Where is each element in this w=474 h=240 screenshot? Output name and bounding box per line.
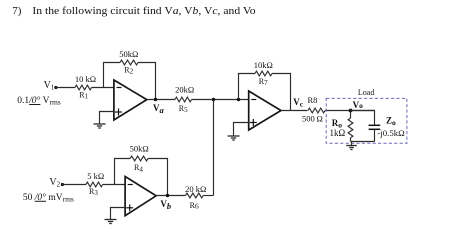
wire U3 output [281, 110, 308, 112]
svg-text:R8: R8 [308, 95, 318, 105]
op-amp U3 [249, 91, 281, 130]
svg-text:R2: R2 [124, 65, 133, 75]
wire R4 left vertical [115, 159, 131, 185]
resistor R2 [120, 60, 138, 65]
wire R3 to U2 inverting input [103, 184, 126, 186]
svg-text:R3: R3 [89, 187, 98, 197]
ground U1 [94, 124, 106, 128]
resistor R5 [175, 97, 192, 102]
svg-text:7): 7) [12, 5, 21, 17]
svg-text:50kΩ: 50kΩ [130, 143, 149, 153]
source V1 terminal dot [54, 86, 57, 89]
wire R2 right vertical to output [138, 63, 156, 100]
wire R4 right vertical to output [148, 159, 168, 196]
svg-text:Zo: Zo [386, 116, 396, 127]
ground U3 [228, 136, 240, 140]
svg-text:50kΩ: 50kΩ [119, 49, 138, 59]
load dashed box [326, 98, 407, 143]
svg-text:Vc: Vc [293, 97, 304, 109]
wire U3 noninverting to ground [234, 123, 249, 137]
wire U2 noninverting to ground [111, 208, 126, 220]
wire U1 output [147, 99, 175, 101]
wire V1 to R1 [56, 87, 75, 89]
resistor R1 [75, 85, 92, 90]
svg-text:V1: V1 [44, 80, 55, 91]
resistor R6 [186, 193, 204, 198]
svg-text:In the following circuit find: In the following circuit find Va, Vb, Vc… [32, 5, 256, 17]
svg-text:10kΩ: 10kΩ [254, 60, 273, 70]
wire R2 left vertical [104, 63, 121, 88]
node Vb dot [166, 194, 169, 197]
wire riser from R6 [213, 100, 215, 196]
svg-text:20kΩ: 20kΩ [175, 84, 194, 94]
svg-text:-j0.5kΩ: -j0.5kΩ [377, 128, 405, 138]
op-amp U1 [114, 80, 147, 120]
wire stub to load ground [351, 142, 353, 146]
wire R1 to U1 inverting input [92, 87, 114, 89]
op-amp U1 plus sign [115, 111, 122, 113]
op-amp U1 minus sign [117, 87, 122, 89]
wire load bottom [351, 141, 375, 143]
node summing junction [212, 98, 215, 101]
op-amp U2 minus sign [128, 184, 133, 186]
wire Vo to Zo top plate [351, 111, 375, 125]
resistor R4 [130, 156, 148, 161]
wire Zo bottom lead [374, 130, 376, 142]
svg-text:20 kΩ: 20 kΩ [185, 184, 206, 194]
wire U1 noninverting to ground [100, 112, 114, 124]
wire Vo to Ro [350, 111, 352, 119]
svg-text:R5: R5 [179, 104, 188, 114]
ground U2 [105, 220, 117, 224]
svg-text:R6: R6 [190, 201, 199, 211]
wire U2 output [156, 195, 185, 197]
resistor Ro vertical [348, 118, 353, 138]
svg-text:Load: Load [358, 88, 374, 97]
op-amp U2 [125, 177, 156, 216]
node R7 tap [237, 98, 240, 101]
resistor R7 [255, 71, 272, 76]
svg-text:Va: Va [153, 103, 165, 115]
svg-text:0.1/0° Vrms: 0.1/0° Vrms [17, 95, 60, 107]
source V2 terminal dot [61, 183, 64, 186]
svg-text:R7: R7 [259, 77, 268, 87]
capacitor Zo plates [369, 124, 381, 126]
wire R7 left vertical [239, 74, 256, 100]
op-amp U3 minus sign [251, 99, 256, 101]
node Va dot [154, 98, 157, 101]
resistor R8 [308, 108, 325, 113]
resistor R3 [86, 182, 103, 187]
op-amp U3 plus sign [250, 122, 257, 124]
wire R7 right vertical to output [272, 74, 291, 111]
node Vo dot [349, 109, 353, 113]
svg-text:5 kΩ: 5 kΩ [87, 171, 104, 181]
wire V2 to R3 [62, 184, 86, 186]
wire R6 to riser [203, 195, 213, 197]
svg-text:R1: R1 [79, 91, 88, 101]
svg-text:500 Ω: 500 Ω [302, 114, 323, 124]
wire Ro bottom lead [350, 138, 352, 142]
ground load [346, 146, 357, 150]
svg-text:10 kΩ: 10 kΩ [75, 74, 96, 84]
svg-text:1kΩ: 1kΩ [330, 128, 346, 138]
op-amp U2 plus sign [126, 207, 133, 209]
svg-text:R4: R4 [134, 163, 143, 173]
wire R8 to node Vo [325, 110, 375, 112]
wire R5 to summing node [192, 99, 249, 101]
svg-text:V2: V2 [49, 177, 60, 188]
svg-text:Vo: Vo [353, 100, 364, 110]
svg-text:Vb: Vb [160, 199, 171, 211]
svg-text:50 /0° mVrms: 50 /0° mVrms [23, 192, 74, 204]
